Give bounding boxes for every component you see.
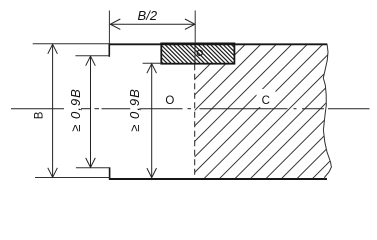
svg-text:O: O	[165, 95, 174, 107]
svg-text:B/2: B/2	[138, 8, 158, 23]
svg-text:≥ 0,9B: ≥ 0,9B	[68, 88, 83, 132]
svg-text:B: B	[33, 111, 45, 119]
svg-text:≥ 0,9B: ≥ 0,9B	[127, 88, 142, 132]
svg-text:C: C	[262, 95, 270, 107]
